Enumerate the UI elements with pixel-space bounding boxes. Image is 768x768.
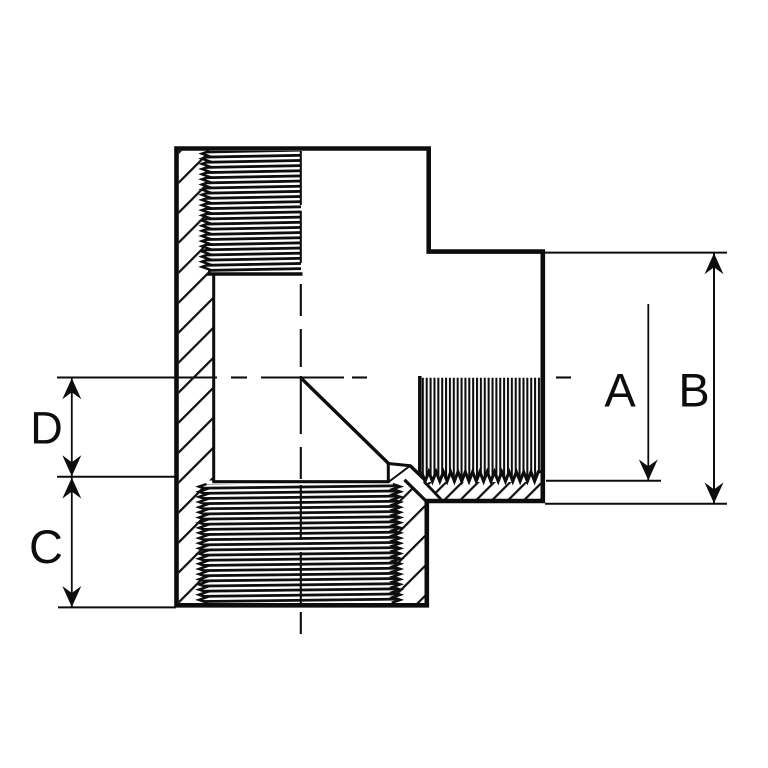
- arrow D top: [62, 378, 81, 399]
- arrow C bottom: [62, 586, 81, 607]
- arrow B top: [705, 253, 724, 274]
- chamfer internal line: [389, 466, 410, 482]
- dimension line D and C: [71, 378, 73, 608]
- top port threads: [202, 151, 301, 273]
- extension line B top: [545, 252, 727, 254]
- junction white wedge: [387, 460, 446, 503]
- arrow A: [639, 459, 658, 480]
- section diagonal: [301, 378, 389, 464]
- dimension line B: [713, 253, 715, 504]
- left wall hatch: [179, 151, 213, 603]
- junction top chamfer edge: [387, 463, 411, 465]
- right port thread left edge: [418, 376, 422, 473]
- extension line B bottom: [545, 503, 727, 505]
- right port lower band hatch: [424, 482, 544, 499]
- relief diagonal: [405, 480, 428, 503]
- svg-text:A: A: [604, 364, 636, 417]
- right port threads: [422, 378, 543, 482]
- bottom right hatch strip: [396, 481, 428, 603]
- bottom port threads: [199, 484, 400, 603]
- bottom port shoulder line: [212, 480, 389, 483]
- svg-text:B: B: [678, 364, 709, 417]
- top port bore wall line: [212, 273, 215, 483]
- svg-text:C: C: [29, 520, 63, 573]
- junction right chamfer edge: [410, 465, 425, 479]
- extension line A bottom: [546, 480, 661, 482]
- arrow D bottom: [62, 455, 81, 476]
- svg-text:D: D: [30, 403, 63, 454]
- arrow C top: [62, 478, 81, 499]
- top port thread bottom line: [207, 272, 303, 276]
- horizontal centerline: [57, 376, 217, 378]
- vertical centerline: [300, 151, 302, 205]
- extension line D/C boundary: [57, 476, 175, 478]
- dimension line A: [647, 304, 649, 481]
- extension line C bottom: [58, 606, 176, 608]
- fitting outer outline: [177, 149, 543, 606]
- arrow B bottom: [705, 482, 724, 503]
- junction vertical edge: [387, 462, 390, 483]
